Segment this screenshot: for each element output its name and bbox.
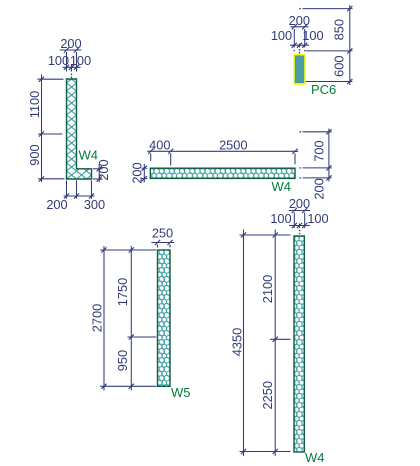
svg-text:1750: 1750 [115,278,130,306]
dim 200 right foot of L-wall [96,159,111,182]
extension lines right foot of L-wall [93,169,103,179]
dim 1750 left of W5 [115,246,134,391]
dim 2500 above horizontal wall [219,138,298,154]
extension lines left of W5 [100,250,156,386]
wall W4 L-shape [67,79,92,179]
dim 100 100 top of L-wall [48,53,91,70]
dim 400 above horizontal wall [147,138,298,154]
svg-text:2500: 2500 [219,138,247,153]
extension lines top of L-wall [67,52,77,72]
svg-text:200: 200 [129,162,144,183]
dim 850 right of PC6 [331,5,352,85]
centerline dots above L-wall [71,74,73,78]
svg-text:2700: 2700 [90,304,105,332]
extension lines above W5 [158,245,171,248]
svg-text:200: 200 [312,178,327,199]
svg-text:200: 200 [60,36,81,51]
dim 250 above W5 [151,225,174,245]
svg-text:250: 250 [152,225,173,240]
dim 4350 left of bottom-right W4 [230,230,247,457]
extension lines above PC6 [294,29,304,48]
svg-text:200: 200 [289,13,310,28]
svg-text:200: 200 [289,196,310,211]
svg-text:100: 100 [302,28,323,43]
svg-text:1100: 1100 [27,91,42,119]
svg-text:900: 900 [27,144,42,165]
dim 1100 left of L-wall [27,75,44,183]
extension lines right of horizontal wall [299,131,331,179]
svg-text:400: 400 [149,138,170,153]
svg-text:2250: 2250 [260,381,275,409]
svg-text:100: 100 [271,28,292,43]
svg-text:W4: W4 [305,450,325,465]
svg-text:600: 600 [331,56,346,77]
wall W4 vertical (bottom-right) [294,236,304,452]
svg-text:PC6: PC6 [311,82,336,97]
centerline dots above bottom-right W4 [299,230,301,235]
extension lines right of PC6 [299,8,352,82]
wall W5 [158,250,171,386]
dim 200 left of horizontal wall [129,162,147,183]
extension lines left of horizontal wall [142,168,148,178]
extension lines left of L-wall [38,79,65,179]
svg-text:100: 100 [270,211,291,226]
dim 700 right of horizontal wall [312,129,332,182]
svg-text:200: 200 [96,159,111,180]
dim 200 above PC6 [289,13,310,30]
extension lines bottom of L-wall [67,180,92,198]
column PC6 [294,55,305,84]
dim 100 100 above bottom-right W4 [270,211,328,228]
dim 2100 left of bottom-right W4 [260,230,278,457]
extension lines above horizontal wall [151,153,295,165]
dim 2700 left of W5 [90,246,107,391]
svg-text:200: 200 [46,197,67,212]
svg-text:2100: 2100 [260,275,275,303]
dim 200 top of L-wall [60,36,82,53]
svg-text:100: 100 [307,211,328,226]
extension lines above bottom-right W4 [294,213,304,229]
dim 100 100 above PC6 [271,28,324,48]
svg-text:700: 700 [312,140,327,161]
svg-text:850: 850 [331,19,346,40]
svg-text:4350: 4350 [230,328,245,356]
centerline dots above PC6 [294,49,306,53]
dim 200 above bottom-right W4 [289,196,310,213]
svg-text:W5: W5 [171,385,191,400]
extension lines left of bottom-right W4 [240,235,291,452]
svg-text:100: 100 [70,53,91,68]
wall W4 horizontal slab [150,168,295,178]
svg-text:950: 950 [115,350,130,371]
svg-text:W4: W4 [272,179,292,194]
dim 200 bottom of L-wall [46,193,94,212]
svg-text:300: 300 [84,197,105,212]
